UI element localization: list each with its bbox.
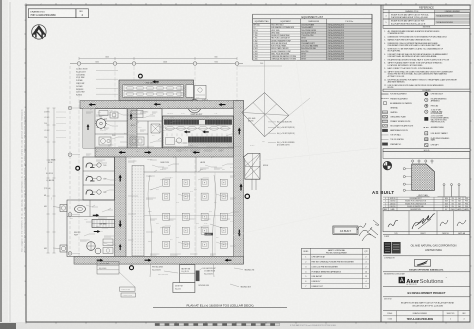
bottom walkway (74, 257, 244, 265)
annex dark door bar (196, 271, 200, 282)
grid centerlines vertical (78, 66, 80, 262)
revision table (383, 196, 470, 198)
top walkway (80, 101, 244, 109)
handwritten stamp signature (357, 223, 378, 241)
notes section (383, 25, 470, 28)
dimension lines above diamond (264, 60, 266, 93)
top module pipe rack (119, 80, 194, 101)
essar swoosh logo (417, 260, 428, 265)
second top dimension line (79, 58, 237, 60)
as built stamp (333, 226, 358, 234)
dimension strings row above mid walkway (96, 145, 110, 147)
deck curved route (148, 175, 152, 277)
day tank (92, 220, 115, 228)
left mid rooms (83, 157, 115, 200)
drawing number box (28, 9, 76, 18)
north arrow symbol (32, 25, 46, 39)
tiny tick rows on top walkway (83, 101, 85, 103)
rooms vertical walkway strip (128, 109, 138, 148)
faint crease lines (246, 148, 378, 162)
pump circles (87, 242, 96, 251)
mid walkway (95, 148, 234, 157)
white band equipment (166, 126, 175, 130)
annex labels left (97, 262, 119, 275)
plan annotation noise (86, 111, 93, 113)
module arrows (184, 130, 191, 133)
legend section (383, 89, 470, 91)
annex box 1 battery room (180, 265, 195, 283)
bridge structure (244, 153, 261, 179)
bottom scale bar (155, 323, 160, 326)
leader + label pairs clutter (99, 115, 105, 117)
module right annex box (195, 85, 207, 99)
dark bold label on deck (205, 233, 214, 236)
lower-left rooms (67, 200, 115, 257)
key plan (383, 161, 391, 169)
vessel circle at module right (188, 100, 201, 113)
black ring left (76, 166, 80, 170)
small room equipment (99, 111, 108, 116)
left rooms block (83, 109, 162, 148)
safety equipment table (302, 248, 370, 288)
hose reel stubs left (60, 205, 67, 212)
signature block (383, 211, 470, 232)
oval equipment (75, 205, 86, 212)
small leader ticks (90, 108, 93, 110)
deck grid squares (163, 179, 170, 186)
gear equipment (96, 119, 106, 129)
diamond truss structure (242, 93, 289, 137)
right vertical walkway (234, 101, 244, 265)
title block panel divider (380, 5, 382, 322)
reference table (383, 5, 470, 10)
left vertical dimension lines (47, 108, 49, 253)
black rings deck (245, 194, 249, 198)
number strip (383, 315, 470, 317)
aker solutions logo (399, 277, 405, 283)
dark equipment module (163, 116, 234, 148)
annex box 2 below (173, 283, 195, 293)
grating strip (132, 166, 144, 257)
pump symbols (86, 163, 95, 168)
ONGC logo (384, 242, 391, 254)
equipment list table (253, 14, 372, 19)
dark band lower (188, 137, 232, 143)
donut marker top (139, 74, 143, 78)
left grid bubbles (68, 106, 72, 110)
top grid bubbles + dimension line (70, 63, 243, 65)
vertical walkway (115, 157, 127, 257)
dark band upper (164, 120, 232, 125)
deck area partitions (144, 157, 234, 257)
module black arrow (152, 80, 159, 83)
